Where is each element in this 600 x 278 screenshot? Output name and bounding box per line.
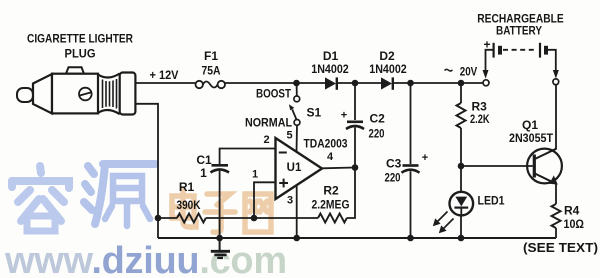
svg-text:C2: C2: [370, 112, 386, 126]
junction C1 / rail / ground: [216, 235, 223, 242]
svg-text:R4: R4: [564, 204, 580, 218]
wire Q1 emitter to R4: [555, 184, 557, 205]
svg-text:PLUG: PLUG: [65, 47, 96, 61]
svg-text:TDA2003: TDA2003: [304, 137, 348, 151]
terminal battery plus: [483, 80, 489, 86]
bottom rail wire: [158, 237, 556, 239]
wire fuse to switch junction: [225, 82, 297, 84]
junction 20V / R3: [458, 80, 465, 87]
cigarette lighter plug: [17, 67, 135, 114]
svg-text:C3: C3: [386, 157, 402, 171]
capacitor C1 1: [196, 153, 229, 180]
svg-text:R1: R1: [179, 180, 195, 194]
svg-text:2.2MEG: 2.2MEG: [312, 198, 350, 212]
wire plug to fuse: [135, 82, 195, 84]
switch S1: [245, 83, 322, 130]
junction C2 node: [352, 80, 359, 87]
terminal battery minus: [553, 79, 559, 85]
transistor Q1 2N3055T: [509, 118, 562, 185]
svg-text:1N4002: 1N4002: [369, 62, 407, 76]
junction C3 node: [407, 80, 414, 87]
wire plug return to R1 node: [135, 104, 158, 218]
svg-text:+: +: [341, 110, 347, 122]
svg-text:D2: D2: [379, 49, 395, 63]
junction pin 3 / rail: [293, 235, 300, 242]
wire D1 to C2 node: [338, 82, 355, 84]
rechargeable battery: [477, 12, 564, 79]
svg-text:1: 1: [200, 166, 207, 180]
diode D2 1N4002: [369, 49, 407, 90]
wire D2 to C3 node: [394, 82, 411, 84]
svg-text:75A: 75A: [202, 64, 221, 78]
svg-text:2.2K: 2.2K: [470, 112, 490, 126]
svg-text:LED1: LED1: [478, 193, 505, 207]
wire base node to Q1 base: [461, 165, 533, 167]
label CIGARETTE LIGHTER PLUG: [27, 32, 133, 61]
svg-text:BOOST: BOOST: [256, 87, 292, 101]
wire pin 4 output: [322, 167, 355, 170]
diode D1 1N4002: [311, 49, 349, 90]
svg-text:S1: S1: [307, 105, 322, 119]
wire R1 node down to rail: [157, 218, 159, 238]
resistor R1 390K: [158, 180, 254, 223]
svg-text:U1: U1: [287, 162, 302, 174]
wire pin 1: [254, 182, 276, 218]
resistor R3 2.2K: [457, 83, 490, 166]
junction R1 / R2 / pin1: [251, 215, 258, 222]
wire 20V node to battery terminal: [461, 82, 483, 84]
wire battery minus terminal to Q1 collector: [555, 85, 557, 150]
svg-text:BATTERY: BATTERY: [496, 24, 542, 38]
svg-text:2: 2: [263, 134, 269, 146]
svg-text:2N3055T: 2N3055T: [509, 131, 554, 145]
svg-text:220: 220: [369, 126, 385, 140]
capacitor C2 220: [341, 83, 385, 168]
svg-text:3: 3: [287, 195, 293, 207]
svg-text:F1: F1: [204, 49, 218, 63]
resistor R4 10ohm: [552, 204, 585, 231]
op-amp U1 TDA2003: [276, 137, 348, 199]
wire pin 2 to C1: [220, 149, 276, 165]
junction plug return / R1: [155, 215, 162, 222]
wire pin 3 to rail: [296, 185, 298, 238]
svg-text:10Ω: 10Ω: [564, 217, 585, 231]
capacitor C3 220: [385, 83, 429, 238]
svg-text:+: +: [422, 152, 428, 164]
wire switch junction to D1: [297, 82, 326, 84]
svg-text:www.dziuu.com: www.dziuu.com: [4, 240, 287, 278]
ground: [211, 238, 230, 258]
svg-text:R2: R2: [323, 183, 339, 197]
svg-text:20V: 20V: [460, 67, 478, 79]
svg-text:+ 12V: + 12V: [150, 70, 179, 82]
junction R3 / Q1 base / LED1: [458, 163, 465, 170]
svg-text:Q1: Q1: [522, 118, 538, 132]
svg-text:D1: D1: [323, 49, 339, 63]
node 20V: [445, 67, 478, 79]
wire C3 node to 20V node: [411, 82, 462, 84]
fuse F1 75A: [196, 49, 226, 88]
svg-text:5: 5: [286, 130, 292, 142]
junction LED1 / rail: [458, 235, 465, 242]
junction top wire / switch: [293, 80, 300, 87]
junction output / C2 / R2: [352, 164, 359, 171]
resistor R2 2.2MEG: [254, 168, 355, 223]
LED LED1: [433, 166, 505, 238]
junction C3 / rail: [407, 235, 414, 242]
svg-text:4: 4: [327, 151, 334, 163]
svg-text:CIGARETTE LIGHTER: CIGARETTE LIGHTER: [27, 32, 133, 46]
svg-text:1N4002: 1N4002: [311, 62, 349, 76]
wire C2 node to D2: [355, 82, 381, 84]
svg-text:1: 1: [252, 169, 258, 181]
wire pin 5 to switch NORMAL: [296, 125, 299, 152]
svg-text:(SEE TEXT): (SEE TEXT): [523, 241, 598, 255]
svg-text:NORMAL: NORMAL: [245, 116, 292, 130]
svg-text:220: 220: [385, 170, 401, 184]
wire R4 to rail corner: [555, 228, 557, 238]
svg-text:390K: 390K: [177, 198, 201, 212]
wire C1 to rail: [219, 171, 221, 238]
